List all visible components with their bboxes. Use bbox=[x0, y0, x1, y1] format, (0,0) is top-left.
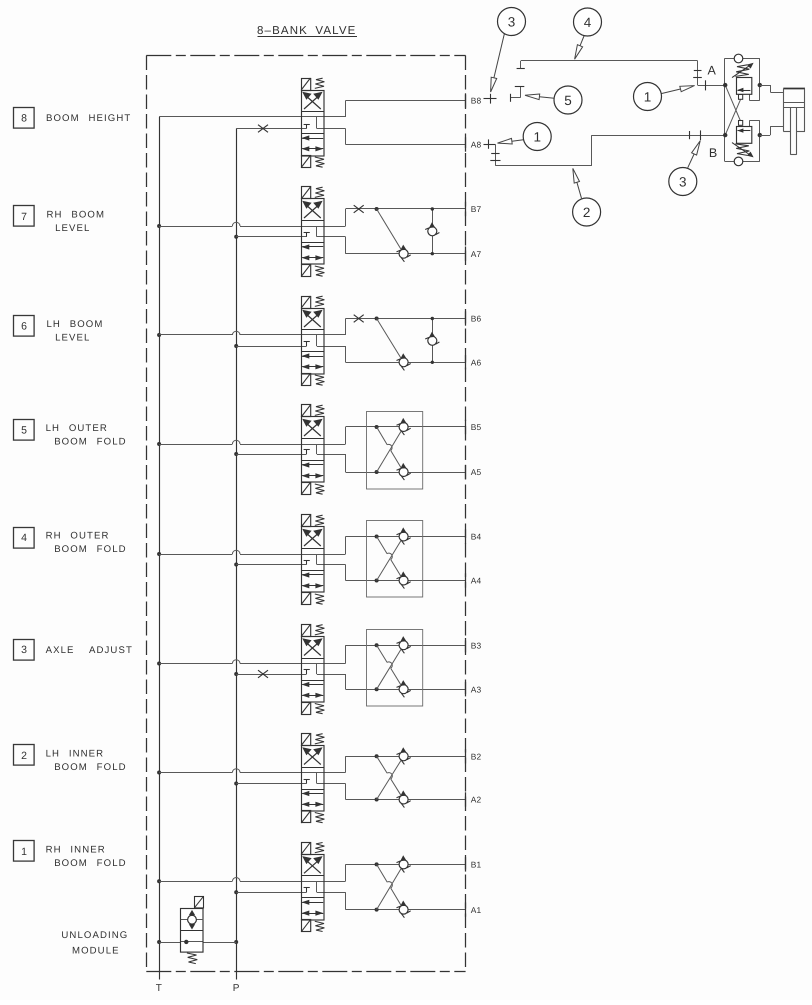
svg-text:LEVEL: LEVEL bbox=[55, 223, 90, 234]
svg-text:A: A bbox=[708, 64, 717, 78]
svg-text:7: 7 bbox=[21, 211, 27, 223]
svg-text:1: 1 bbox=[21, 846, 27, 858]
svg-text:1: 1 bbox=[533, 129, 541, 144]
svg-text:B8: B8 bbox=[471, 96, 482, 106]
svg-text:2: 2 bbox=[583, 205, 591, 220]
svg-text:A4: A4 bbox=[471, 576, 482, 586]
svg-text:B: B bbox=[709, 146, 717, 160]
svg-text:3: 3 bbox=[508, 14, 516, 29]
svg-text:A1: A1 bbox=[471, 905, 482, 915]
svg-text:RH INNER: RH INNER bbox=[46, 844, 106, 855]
svg-text:BOOM FOLD: BOOM FOLD bbox=[54, 544, 126, 555]
svg-text:A2: A2 bbox=[471, 795, 482, 805]
svg-text:UNLOADING: UNLOADING bbox=[61, 930, 128, 941]
svg-text:LEVEL: LEVEL bbox=[55, 333, 90, 344]
svg-text:6: 6 bbox=[21, 321, 27, 333]
svg-text:B5: B5 bbox=[471, 422, 482, 432]
svg-text:ADJUST: ADJUST bbox=[89, 645, 133, 656]
svg-text:A3: A3 bbox=[471, 684, 482, 694]
svg-text:B1: B1 bbox=[471, 860, 482, 870]
svg-text:MODULE: MODULE bbox=[72, 946, 120, 957]
svg-text:5: 5 bbox=[564, 93, 572, 108]
svg-text:3: 3 bbox=[679, 174, 687, 189]
svg-text:2: 2 bbox=[21, 750, 27, 762]
svg-text:B4: B4 bbox=[471, 532, 482, 542]
svg-text:RH OUTER: RH OUTER bbox=[46, 531, 110, 542]
svg-text:BOOM FOLD: BOOM FOLD bbox=[54, 762, 126, 773]
svg-text:B6: B6 bbox=[471, 314, 482, 324]
svg-text:T: T bbox=[156, 983, 162, 994]
svg-text:B7: B7 bbox=[471, 204, 482, 214]
svg-text:BOOM FOLD: BOOM FOLD bbox=[54, 858, 126, 869]
svg-text:P: P bbox=[233, 983, 240, 994]
svg-text:A8: A8 bbox=[471, 140, 482, 150]
svg-text:4: 4 bbox=[584, 15, 592, 30]
svg-text:AXLE: AXLE bbox=[46, 645, 75, 656]
svg-text:4: 4 bbox=[21, 532, 27, 544]
svg-text:8–BANK VALVE: 8–BANK VALVE bbox=[257, 25, 356, 37]
svg-text:3: 3 bbox=[21, 644, 27, 656]
svg-text:B3: B3 bbox=[471, 640, 482, 650]
svg-text:A5: A5 bbox=[471, 467, 482, 477]
svg-text:A7: A7 bbox=[471, 249, 482, 259]
svg-text:BOOM HEIGHT: BOOM HEIGHT bbox=[46, 113, 131, 124]
svg-text:LH BOOM: LH BOOM bbox=[47, 319, 104, 330]
svg-text:B2: B2 bbox=[471, 752, 482, 762]
svg-text:8: 8 bbox=[21, 113, 27, 125]
svg-text:5: 5 bbox=[21, 425, 27, 437]
svg-text:RH BOOM: RH BOOM bbox=[47, 209, 106, 220]
svg-text:1: 1 bbox=[644, 89, 652, 104]
svg-text:LH INNER: LH INNER bbox=[46, 748, 105, 759]
svg-text:BOOM FOLD: BOOM FOLD bbox=[54, 437, 126, 448]
svg-text:LH OUTER: LH OUTER bbox=[46, 423, 108, 434]
svg-text:A6: A6 bbox=[471, 358, 482, 368]
